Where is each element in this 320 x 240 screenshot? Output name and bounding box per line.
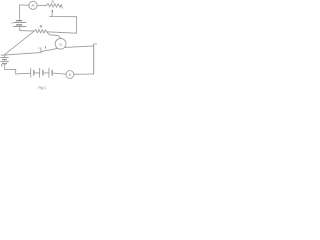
wire: diagonal to bottom-left cell: [4, 31, 34, 55]
stub at right end: [93, 44, 95, 46]
wire: battery bottom vertical: [19, 27, 21, 31]
svg-text:Fig 1: Fig 1: [38, 86, 46, 90]
wire: slider tap horizontal: [49, 16, 76, 18]
rheostat Rh zigzag: [47, 3, 63, 8]
wire: left of G with jockey stub: [40, 48, 42, 53]
wire: battery top vertical: [19, 5, 21, 20]
rheostat slider arrow: [51, 10, 53, 16]
wire: long sloped wire to bottom-left: [1, 53, 41, 56]
wire: bottom right: [74, 73, 94, 75]
wire: lead to galvanometer: [47, 32, 61, 39]
wire: [34, 72, 39, 74]
battery B2 cell 2: [39, 68, 41, 77]
ammeter A2: [66, 71, 74, 79]
wire: below cell: [4, 64, 6, 70]
ammeter A1: [29, 1, 37, 9]
battery B1 plates: [17, 20, 22, 22]
svg-text:A: A: [32, 3, 35, 8]
galvanometer G: [55, 38, 66, 49]
svg-text:E: E: [1, 64, 3, 68]
battery B2 cell 1: [30, 68, 32, 77]
svg-text:J: J: [38, 46, 40, 50]
wire: small step down: [15, 70, 17, 74]
svg-text:R: R: [52, 0, 55, 4]
cell E2 plates (bottom-left, horizontal): [4, 55, 6, 58]
svg-text:R: R: [40, 24, 43, 29]
tick mark near jockey: [44, 47, 46, 49]
svg-text:A: A: [69, 73, 72, 77]
wire: to resistor R: [20, 30, 35, 33]
svg-text:G: G: [59, 43, 62, 47]
wire: [43, 72, 49, 74]
wire: top horizontal to ammeter: [20, 4, 29, 6]
wire: right of G: [65, 46, 94, 48]
wire: ammeter to rheostat: [37, 4, 46, 6]
wire to bottom ammeter: [52, 73, 66, 74]
resistor R zigzag: [34, 29, 46, 33]
wire: right vertical down: [93, 46, 95, 74]
svg-text:ε: ε: [12, 21, 14, 25]
wire: right vertical of top loop: [76, 17, 78, 34]
battery B2 cell 3: [48, 68, 50, 77]
wire: middle horizontal: [47, 32, 77, 33]
